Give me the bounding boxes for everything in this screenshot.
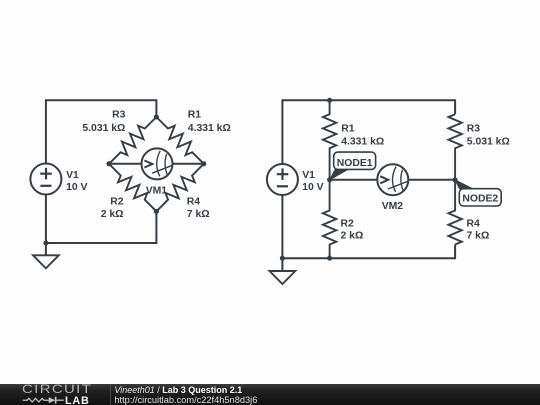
resistor R2 <box>109 164 156 212</box>
voltage source V1 (right) <box>267 164 298 195</box>
wire <box>282 100 455 164</box>
resistor R2 (right) <box>323 180 336 258</box>
svg-text:5.031 kΩ: 5.031 kΩ <box>467 136 510 147</box>
svg-text:4.331 kΩ: 4.331 kΩ <box>188 123 231 134</box>
svg-text:V1: V1 <box>66 170 79 181</box>
node bridge left <box>106 161 111 166</box>
svg-text:5.031 kΩ: 5.031 kΩ <box>82 123 125 134</box>
wire <box>281 195 283 258</box>
node bridge right <box>201 161 206 166</box>
resistor R3 (right) <box>448 114 461 180</box>
logo diode <box>49 397 56 403</box>
wire <box>109 163 142 165</box>
node junction bottom-left <box>280 256 285 261</box>
svg-text:VM1: VM1 <box>146 186 168 197</box>
wire <box>46 211 156 243</box>
node NODE1 junction <box>327 177 332 182</box>
voltmeter VM2 <box>377 164 408 195</box>
svg-text:V1: V1 <box>302 170 315 181</box>
wire <box>330 179 378 181</box>
voltage source V1 <box>30 164 61 195</box>
svg-text:7 kΩ: 7 kΩ <box>467 230 490 241</box>
svg-text:NODE1: NODE1 <box>337 158 373 169</box>
node junction <box>43 240 48 245</box>
logo resistor <box>23 398 49 402</box>
wire <box>46 100 156 163</box>
wire <box>408 179 455 181</box>
resistor R1 (right) <box>323 100 336 180</box>
svg-text:NODE2: NODE2 <box>462 194 498 205</box>
resistor R4 <box>156 164 203 212</box>
node flag NODE2 <box>455 180 501 206</box>
svg-text:R2: R2 <box>341 218 355 229</box>
node junction top <box>327 98 332 103</box>
svg-text:VM2: VM2 <box>382 201 404 212</box>
node flag NODE1 <box>330 152 376 180</box>
resistor R4 (right) <box>448 180 461 245</box>
logo CircuitLab <box>22 384 112 405</box>
svg-text:10 V: 10 V <box>302 182 323 193</box>
svg-text:R2: R2 <box>110 196 124 207</box>
node NODE2 junction <box>453 177 458 182</box>
resistor R1 <box>156 117 203 164</box>
svg-text:R4: R4 <box>467 218 481 229</box>
svg-text:2 kΩ: 2 kΩ <box>341 230 364 241</box>
svg-text:10 V: 10 V <box>66 182 87 193</box>
svg-text:4.331 kΩ: 4.331 kΩ <box>341 136 384 147</box>
resistor R3 <box>109 117 156 164</box>
wire <box>45 195 47 244</box>
node junction bottom-middle <box>327 256 332 261</box>
svg-text:R3: R3 <box>467 123 481 134</box>
node bridge bottom <box>154 209 159 214</box>
svg-text:R4: R4 <box>187 196 201 207</box>
svg-text:R1: R1 <box>188 109 202 120</box>
wire <box>173 163 204 165</box>
svg-text:R1: R1 <box>341 123 355 134</box>
svg-text:R3: R3 <box>112 109 126 120</box>
wire <box>282 245 455 259</box>
svg-text:2 kΩ: 2 kΩ <box>101 209 124 220</box>
svg-text:7 kΩ: 7 kΩ <box>187 209 210 220</box>
ground <box>33 243 59 268</box>
node bridge top <box>154 114 159 119</box>
ground (right) <box>270 259 296 285</box>
voltmeter VM1 <box>142 148 173 179</box>
